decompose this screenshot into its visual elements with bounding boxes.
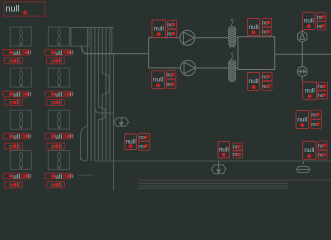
svg-text:no: no [139,135,145,141]
svg-text:null: null [249,78,260,85]
svg-text:null: null [304,18,315,25]
svg-text:no: no [139,144,145,150]
svg-text:ll: ll [17,183,21,189]
svg-text:ull: ull [13,173,20,180]
svg-text:null: null [304,147,315,154]
svg-text:ll: ll [59,144,63,150]
svg-text:null: null [297,116,308,123]
svg-text:n: n [51,59,55,65]
svg-text:ull: ull [55,134,62,141]
svg-text:ull: ull [55,92,62,99]
svg-text:ll: ll [59,183,63,189]
svg-text:n: n [51,144,55,150]
svg-text:null: null [248,24,259,31]
svg-text:ull: ull [55,173,62,180]
svg-text:null: null [305,88,316,95]
svg-text:null: null [153,77,164,84]
svg-text:ll: ll [17,144,21,150]
svg-text:n: n [51,183,55,189]
svg-text:ull: ull [13,134,20,141]
svg-text:null: null [154,26,165,33]
svg-text:ull: ull [13,50,20,57]
svg-text:no: no [311,113,317,119]
svg-text:ll: ll [17,59,21,65]
svg-text:ll: ll [59,101,63,107]
svg-text:ull: ull [55,50,62,57]
svg-text:n: n [9,144,13,150]
svg-text:n: n [51,101,55,107]
svg-text:n: n [9,101,13,107]
svg-text:n: n [9,59,13,65]
svg-text:null: null [219,146,230,153]
svg-text:ull: ull [13,92,20,99]
svg-text:null: null [6,4,20,14]
svg-text:n: n [9,183,13,189]
svg-text:no: no [311,122,317,128]
svg-text:ll: ll [59,59,63,65]
svg-text:ll: ll [17,101,21,107]
